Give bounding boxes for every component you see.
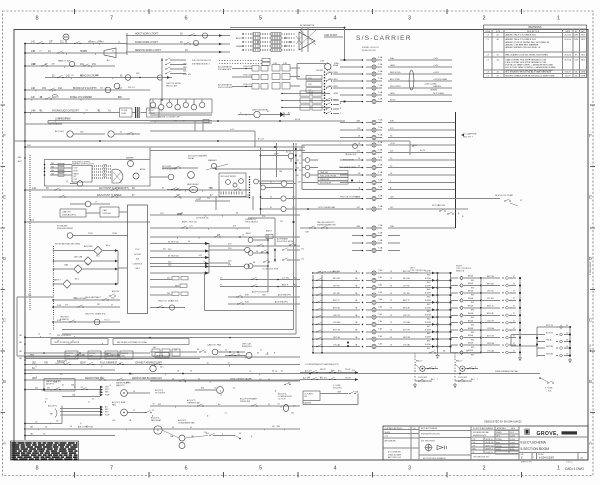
svg-text:ACC RLY: ACC RLY [55, 130, 65, 133]
svg-text:19: 19 [153, 404, 155, 406]
svg-text:A2: A2 [331, 369, 333, 372]
title block main verticals [410, 426, 412, 460]
svg-text:03-27-95: 03-27-95 [564, 35, 571, 37]
svg-text:7.5A: 7.5A [378, 156, 383, 159]
svg-text:5: 5 [259, 16, 262, 22]
svg-text:EXT 7B: EXT 7B [403, 330, 411, 332]
svg-text:2/1: 2/1 [277, 404, 280, 406]
svg-text:B/Ln: B/Ln [86, 264, 90, 266]
svg-text:2/5: 2/5 [56, 421, 59, 423]
svg-text:SKYL/GHT W/PER: SKYL/GHT W/PER [221, 176, 237, 178]
svg-text:B/L: B/L [126, 382, 129, 384]
svg-text:4 MDL 4(1): 4 MDL 4(1) [243, 84, 252, 86]
right outrigger row LF1 8B [450, 299, 458, 301]
sender row links [302, 144, 352, 146]
svg-text:ADDED (CON LT DETAIL SH), LET: ADDED (CON LT DETAIL SH), LET BKR LIN [506, 41, 550, 44]
fuse F7 row 101.5 [340, 101, 362, 103]
mid vertical pair [293, 143, 295, 330]
revision table column line [562, 29, 564, 78]
svg-text:BED LT: BED LT [416, 361, 423, 363]
zone tick bottom [372, 472, 374, 478]
tele block bottom wires [17, 355, 120, 357]
svg-text:CL?TCH: CL?TCH [278, 399, 286, 401]
svg-text:47GD RED: 47GD RED [328, 72, 339, 74]
svg-text:3T: 3T [513, 283, 515, 285]
outrigger row LF1 8B [312, 294, 314, 296]
svg-text:208: 208 [51, 64, 54, 66]
svg-text:JB7: JB7 [19, 351, 22, 353]
fuse F16 row 182.5 [340, 182, 362, 184]
svg-text:86: 86 [172, 427, 174, 429]
svg-text:SHEET 1 OF 1: SHEET 1 OF 1 [521, 462, 532, 464]
sender box stack [318, 171, 348, 174]
svg-text:CAB FLT: CAB FLT [53, 279, 61, 282]
beacon light stub [150, 77, 172, 79]
svg-text:DOOR SW: DOOR SW [418, 377, 427, 379]
accessory bus pair [150, 149, 305, 151]
svg-text:73: 73 [390, 344, 392, 346]
svg-text:SOL: SOL [548, 391, 552, 393]
fuse F1 row 60 [340, 59, 362, 61]
svg-text:2 PL: 2 PL [473, 439, 476, 441]
svg-text:BR2 7C: BR2 7C [333, 300, 341, 302]
mode ladder rows [282, 93, 330, 95]
vertical 62 link [61, 406, 63, 424]
svg-text:LBL: LBL [575, 72, 578, 74]
svg-text:CAB: CAB [103, 209, 108, 212]
lamp driver op-amp U1 [299, 32, 315, 50]
outrigger row RET 8B [312, 338, 314, 340]
svg-text:JB2: JB2 [30, 433, 33, 435]
zone tick top [446, 9, 448, 14]
svg-text:7.5A: 7.5A [378, 224, 383, 227]
svg-text:14M: 14M [31, 110, 36, 112]
svg-text:WHT: WHT [103, 170, 107, 172]
svg-text:/NT: /NT [74, 176, 77, 178]
svg-text:53: 53 [268, 379, 270, 381]
svg-text:103: 103 [174, 350, 177, 352]
svg-text:TEMP SW: TEMP SW [320, 172, 328, 174]
svg-text:(W/LOPT): (W/LOPT) [116, 385, 125, 387]
work light circuit wire [25, 43, 128, 45]
svg-text:73: 73 [390, 308, 392, 310]
svg-text:N?: N? [473, 452, 475, 454]
svg-text:7.5A: 7.5A [378, 70, 383, 73]
svg-text:BF2 7A: BF2 7A [403, 270, 410, 273]
svg-text:PANE LT SW: PANE LT SW [58, 60, 70, 63]
retract rows join [117, 251, 119, 285]
svg-text:BF2 7A: BF2 7A [487, 275, 494, 278]
svg-text:B/LL: B/LL [338, 370, 342, 372]
ac harness wire 413 [60, 408, 102, 410]
fixed work light branch [126, 43, 230, 45]
svg-text:TJ-2: TJ-2 [413, 428, 416, 430]
svg-text:ADDED CTR BRK RET MARKER: ADDED CTR BRK RET MARKER [506, 43, 539, 46]
wiper terminal strip [249, 176, 250, 177]
fuse F11 row 145 [340, 144, 362, 146]
aux hoist outline [204, 272, 206, 311]
svg-text:73: 73 [390, 315, 392, 317]
svg-text:3T: 3T [513, 276, 515, 278]
skylight wiper box [219, 173, 246, 197]
svg-text:3T: 3T [513, 350, 515, 352]
wiper output wires [92, 165, 112, 167]
svg-text:123B: 123B [112, 233, 117, 235]
svg-text:14B: 14B [31, 51, 36, 53]
svg-text:7.16 a.a: 7.16 a.a [566, 462, 573, 464]
svg-text:EXT 7B: EXT 7B [487, 335, 495, 337]
svg-text:PANEL LTS DIMMER: PANEL LTS DIMMER [70, 96, 92, 99]
right outrigger row BF2 7A [450, 277, 458, 279]
revision table column line [503, 29, 505, 78]
boom retracted switch DAY CAB [84, 257, 92, 265]
revision table row line [484, 36, 587, 38]
zone tick top [521, 9, 523, 14]
svg-text:4 MDL 4(1): 4 MDL 4(1) [243, 75, 252, 77]
otr bus left [312, 275, 314, 352]
top row connector stubs [150, 120, 345, 122]
display link wire [86, 212, 100, 214]
svg-text:BR2 7C: BR2 7C [487, 306, 495, 308]
svg-text:121: 121 [60, 374, 63, 376]
svg-text:3: 3 [408, 466, 411, 472]
svg-text:GRN: GRN [390, 65, 395, 67]
svg-text:(S2): (S2) [296, 160, 300, 162]
fuse F2 row 67 [340, 66, 362, 68]
sender cluster circles [305, 158, 310, 163]
distribution bus [260, 147, 262, 215]
fuse F12 row 152.5 [340, 152, 362, 154]
right outrigger row BR2 7C [450, 307, 458, 309]
svg-text:CAD=1 DWG: CAD=1 DWG [565, 467, 585, 471]
svg-text:BF1 8B: BF1 8B [487, 283, 494, 285]
secondary bus wire [29, 155, 31, 310]
relay K3 [108, 131, 114, 137]
svg-text:51: 51 [62, 385, 64, 387]
svg-text:14: 14 [105, 88, 107, 90]
svg-text:09-30-95: 09-30-95 [564, 39, 571, 41]
svg-text:7.5A: 7.5A [378, 185, 383, 188]
svg-text:3 PL: 3 PL [473, 442, 476, 444]
ac harness wire 416.2 [60, 411, 102, 413]
unlock tele motor M2 [245, 247, 250, 252]
svg-text:12: 12 [38, 334, 40, 336]
svg-text:12: 12 [72, 341, 74, 343]
zone tick right [590, 350, 595, 352]
svg-text:30B: 30B [51, 170, 54, 172]
defroster fan motor [150, 365, 156, 371]
svg-text:BF1 8B: BF1 8B [333, 278, 340, 280]
general notes text [11, 442, 16, 444]
ac condition bus [40, 428, 300, 430]
svg-text:4: 4 [475, 366, 476, 368]
row 169 wire [216, 168, 294, 170]
svg-text:47: 47 [111, 305, 113, 307]
zone tick bottom [223, 472, 225, 478]
svg-text:RET 8B: RET 8B [546, 346, 554, 348]
svg-text:14G: 14G [32, 188, 37, 190]
svg-text:GREEN: GREEN [433, 86, 441, 88]
long bus 330 [62, 329, 294, 331]
svg-text:14: 14 [89, 41, 91, 43]
svg-text:BR1 8D: BR1 8D [403, 308, 411, 310]
svg-text:COUNTERWE/GHT REMOVAL(OPT): COUNTERWE/GHT REMOVAL(OPT) [305, 363, 339, 366]
svg-text:WASHER: WASHER [126, 157, 135, 160]
svg-text:LF2 7B: LF2 7B [487, 291, 494, 293]
svg-text:C/2B: C/2B [308, 78, 312, 80]
svg-text:7.5A: 7.5A [378, 97, 383, 100]
zone tick bottom [148, 472, 150, 478]
svg-text:BLK/WH: BLK/WH [425, 329, 431, 331]
svg-text:1: 1 [557, 16, 560, 22]
svg-text:2: 2 [437, 379, 438, 381]
svg-text:A: A [589, 441, 592, 446]
zone tick right [590, 166, 595, 168]
svg-text:73: 73 [390, 322, 392, 324]
cwt row 1 [300, 372, 358, 374]
svg-text:BLK/WH: BLK/WH [425, 300, 431, 302]
zone tick left [1, 104, 6, 106]
svg-text:08-19-94: 08-19-94 [564, 59, 571, 61]
in-tele row 273 [150, 272, 209, 274]
accessory relay K2 [67, 131, 73, 137]
svg-text:+15V: +15V [390, 143, 396, 145]
svg-text:BLK/WH: BLK/WH [425, 315, 431, 317]
svg-text:FAN: FAN [112, 404, 116, 407]
svg-text:8-/294-012087: 8-/294-012087 [539, 457, 555, 459]
svg-text:OBSOLETED BY EN-284-014022: OBSOLETED BY EN-284-014022 [484, 421, 522, 424]
svg-text:GRN: GRN [390, 93, 395, 95]
svg-text:TANK RELAY: TANK RELAY [187, 183, 200, 186]
revision table row line [484, 51, 587, 53]
svg-text:11-9-96: 11-9-96 [510, 439, 515, 441]
brake solenoid S2 [217, 387, 224, 394]
svg-text:60.75: 60.75 [420, 150, 426, 152]
boom flts flood light row [25, 89, 150, 91]
svg-text:FUEL LEVEL: FUEL LEVEL [343, 160, 354, 162]
alternator cluster [300, 30, 316, 45]
zone tick top [372, 9, 374, 14]
boom retracted switch CAB FLT [63, 280, 71, 288]
svg-text:208: 208 [174, 121, 177, 123]
otr ladder bottom wire [313, 352, 480, 354]
in-tele row 263.5 [150, 263, 209, 265]
svg-text:BOOM FLTS FL/OPT: BOOM FLTS FL/OPT [73, 88, 95, 90]
hour meter component [281, 196, 286, 201]
svg-text:TEL A: TEL A [546, 338, 552, 341]
revision table column line [572, 29, 574, 78]
rotation unit ROTN FL [65, 351, 78, 359]
svg-text:7.5A: 7.5A [378, 91, 383, 94]
svg-text:7.5A: 7.5A [378, 239, 383, 242]
svg-text:TELE EXT DRA/N SOL: TELE EXT DRA/N SOL [85, 313, 107, 316]
svg-text:AUX HO/ST A/ SPEED(OPT): AUX HO/ST A/ SPEED(OPT) [99, 187, 129, 190]
svg-text:50: 50 [107, 320, 109, 322]
right outrigger row BR1 8D [450, 314, 458, 316]
svg-text:ADDED TELE CTL DRN B SOL: ADDED TELE CTL DRN B SOL [506, 38, 538, 41]
svg-text:7.5A: 7.5A [378, 246, 383, 249]
svg-text:8: 8 [35, 16, 38, 22]
svg-text:(DRA/N P): (DRA/N P) [60, 318, 69, 321]
panel light switch row [25, 65, 115, 67]
svg-text:14: 14 [275, 371, 277, 373]
svg-text:52: 52 [198, 379, 200, 381]
svg-text:5: 5 [259, 466, 262, 472]
rotation row wires [25, 352, 150, 354]
fuse F3 row 74 [340, 73, 362, 75]
svg-text:30A: 30A [390, 57, 394, 60]
extension row EXT 7B [537, 326, 545, 328]
svg-text:47RD WHT: 47RD WHT [327, 86, 338, 88]
mode select wires [150, 227, 250, 229]
svg-text:23: 23 [177, 371, 179, 373]
svg-text:GROUND: GROUND [75, 355, 86, 357]
svg-text:PRESS SW: PRESS SW [320, 179, 329, 181]
svg-text:+4.8V: +4.8V [433, 72, 439, 74]
condenser fan motors [179, 435, 185, 441]
svg-text:73: 73 [390, 300, 392, 302]
mode header box [113, 339, 189, 345]
svg-text:A +24: A +24 [258, 138, 264, 141]
svg-text:14F: 14F [31, 97, 36, 99]
ignition switch lower contacts [326, 99, 327, 100]
svg-text:LR1 8A: LR1 8A [487, 327, 494, 330]
svg-text:S/S-CARRIER: S/S-CARRIER [356, 35, 412, 42]
cwt row 2 [300, 379, 358, 381]
skylight wiper leads [195, 200, 230, 202]
revision table column line [491, 29, 493, 78]
svg-text:SHLD: SHLD [332, 99, 338, 101]
gauge cluster box [150, 99, 212, 113]
svg-text:A-1: A-1 [497, 34, 500, 37]
hoist speed lamp [85, 201, 91, 207]
right otr bus2 [519, 278, 521, 356]
svg-text:47: 47 [86, 426, 88, 428]
svg-text:A/PED: A/PED [140, 168, 146, 171]
fuse F22 row 243 [352, 242, 362, 244]
svg-text:532: 532 [47, 387, 50, 389]
svg-text:A-1: A-1 [497, 74, 500, 77]
cab display box [100, 207, 119, 217]
revision table header rule [484, 28, 587, 30]
svg-text:WASHER CONTROL(OPT): WASHER CONTROL(OPT) [72, 163, 94, 166]
svg-text:SW/NG BRAKE VALVE: SW/NG BRAKE VALVE [230, 378, 251, 381]
regulator box wires [297, 63, 326, 65]
fuse F20 row 228 [352, 227, 362, 229]
svg-text:B/L: B/L [94, 88, 97, 90]
svg-text:121: 121 [32, 64, 35, 66]
svg-text:SH/MM: SH/MM [385, 432, 391, 434]
svg-text:SW/NG BRAKE UNLOAD: SW/NG BRAKE UNLOAD [495, 370, 519, 373]
svg-text:GAUGE CLUSTER LMP: GAUGE CLUSTER LMP [158, 116, 180, 119]
svg-text:/N TELE (3): /N TELE (3) [168, 241, 179, 243]
to carrier bracket [455, 112, 457, 228]
svg-text:LOW: LOW [74, 168, 78, 170]
svg-text:23: 23 [55, 363, 57, 365]
svg-text:JPL: JPL [575, 54, 578, 56]
svg-text:MOVED UNBOLSTER BL SN 294-C1 N: MOVED UNBOLSTER BL SN 294-C1 NSSP DWS [506, 75, 555, 77]
svg-text:12: 12 [74, 387, 76, 389]
row 440 [25, 435, 115, 437]
svg-text:51: 51 [249, 371, 251, 373]
svg-text:CH?D: CH?D [496, 436, 500, 438]
svg-text:6: 6 [184, 466, 187, 472]
svg-text:TELE RETRACT: TELE RETRACT [85, 296, 102, 299]
water heater box [44, 379, 75, 392]
svg-text:TAIL (BOOM/OPT): TAIL (BOOM/OPT) [317, 221, 335, 224]
in-tele bus [208, 243, 210, 273]
svg-text:3T: 3T [513, 321, 515, 323]
svg-text:ADDED TELE CTL DRN B SOL: ADDED TELE CTL DRN B SOL [506, 34, 538, 37]
svg-text:=LT DN: =LT DN [282, 277, 289, 279]
svg-text:JB2: JB2 [30, 427, 33, 429]
grove logo box [525, 429, 530, 435]
right outrigger row OTL (A) [450, 352, 458, 354]
svg-text:E: E [589, 195, 592, 200]
svg-text:1/8 MODE (3): 1/8 MODE (3) [196, 218, 209, 220]
svg-text:SYNCHRON/ZER: SYNCHRON/ZER [57, 228, 74, 230]
svg-text:LF1 8B: LF1 8B [487, 298, 494, 300]
svg-text:96: 96 [104, 320, 106, 322]
zone tick right [590, 227, 595, 229]
svg-text:CONDENSER FAN: CONDENSER FAN [178, 422, 195, 425]
svg-text:2/5: 2/5 [35, 421, 38, 423]
fuse F21 row 235.5 [352, 235, 362, 237]
revision table row line [484, 32, 587, 34]
fuse F19 row 209 [352, 208, 362, 210]
svg-text:103: 103 [206, 433, 209, 435]
svg-text:SHLD: SHLD [390, 99, 396, 101]
beacon light row [45, 77, 150, 79]
svg-text:86: 86 [197, 349, 199, 351]
svg-text:19: 19 [49, 334, 51, 336]
outrigger row BF2 7A [312, 272, 314, 274]
svg-text:30B: 30B [51, 167, 54, 169]
6a row [25, 369, 115, 371]
svg-text:3F STAR SW: 3F STAR SW [432, 204, 446, 207]
svg-text:REMOTE WORK LT/OPT: REMOTE WORK LT/OPT [135, 50, 162, 52]
svg-text:+24(3.5)+RAD: +24(3.5)+RAD [424, 83, 437, 86]
otr unl black squares [347, 342, 349, 344]
svg-text:W/PER/WASHER: W/PER/WASHER [162, 168, 178, 171]
svg-text:52: 52 [152, 410, 154, 412]
outrigger row LF2 7B [312, 287, 314, 289]
svg-text:C/2B: C/2B [308, 84, 312, 86]
svg-text:A: A [3, 441, 6, 446]
svg-text:S_FLASH: S_FLASH [305, 393, 314, 396]
svg-text:FUSE BLOCK: FUSE BLOCK [362, 50, 376, 52]
svg-text:23: 23 [84, 51, 86, 53]
svg-text:EXT 7B: EXT 7B [333, 330, 341, 332]
hydraulics cats opt row [25, 112, 120, 114]
svg-text:1-8: 1-8 [486, 75, 489, 77]
drawing number row [531, 452, 533, 460]
svg-text:7.5A: 7.5A [378, 148, 383, 151]
svg-text:3T: 3T [513, 328, 515, 330]
rotation indicator header box [51, 339, 108, 345]
row 428 [25, 423, 62, 425]
svg-text:THERMOSTAT: THERMOSTAT [187, 402, 201, 405]
svg-text:BOOM: BOOM [134, 254, 141, 256]
svg-text:223D: 223D [88, 233, 93, 235]
svg-text:S/S HAND APS: S/S HAND APS [218, 68, 232, 71]
svg-text:WHT 47RD: WHT 47RD [390, 86, 401, 88]
svg-text:B: B [589, 379, 592, 384]
svg-text:GRN: GRN [333, 93, 338, 95]
zone tick bottom [74, 472, 76, 478]
telescope control unit box [128, 205, 148, 314]
svg-text:WH: WH [64, 35, 68, 39]
